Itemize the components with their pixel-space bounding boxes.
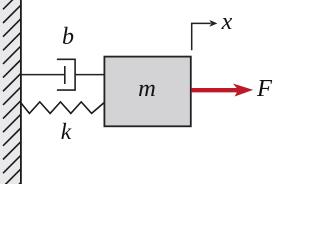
svg-text:m: m bbox=[138, 75, 156, 102]
svg-text:k: k bbox=[61, 119, 72, 145]
wall bbox=[0, 0, 21, 200]
svg-text:b: b bbox=[62, 24, 74, 50]
svg-text:F: F bbox=[256, 75, 273, 102]
spring k bbox=[21, 102, 105, 114]
damper rod left bbox=[21, 74, 65, 76]
force arrow F bbox=[191, 84, 253, 97]
x reference line bbox=[192, 23, 211, 50]
damper rod right bbox=[75, 74, 105, 76]
svg-text:x: x bbox=[221, 9, 233, 35]
x arrowhead bbox=[209, 20, 217, 27]
damper piston bbox=[64, 66, 66, 84]
mass m bbox=[104, 57, 190, 127]
damper cylinder bbox=[57, 59, 75, 90]
